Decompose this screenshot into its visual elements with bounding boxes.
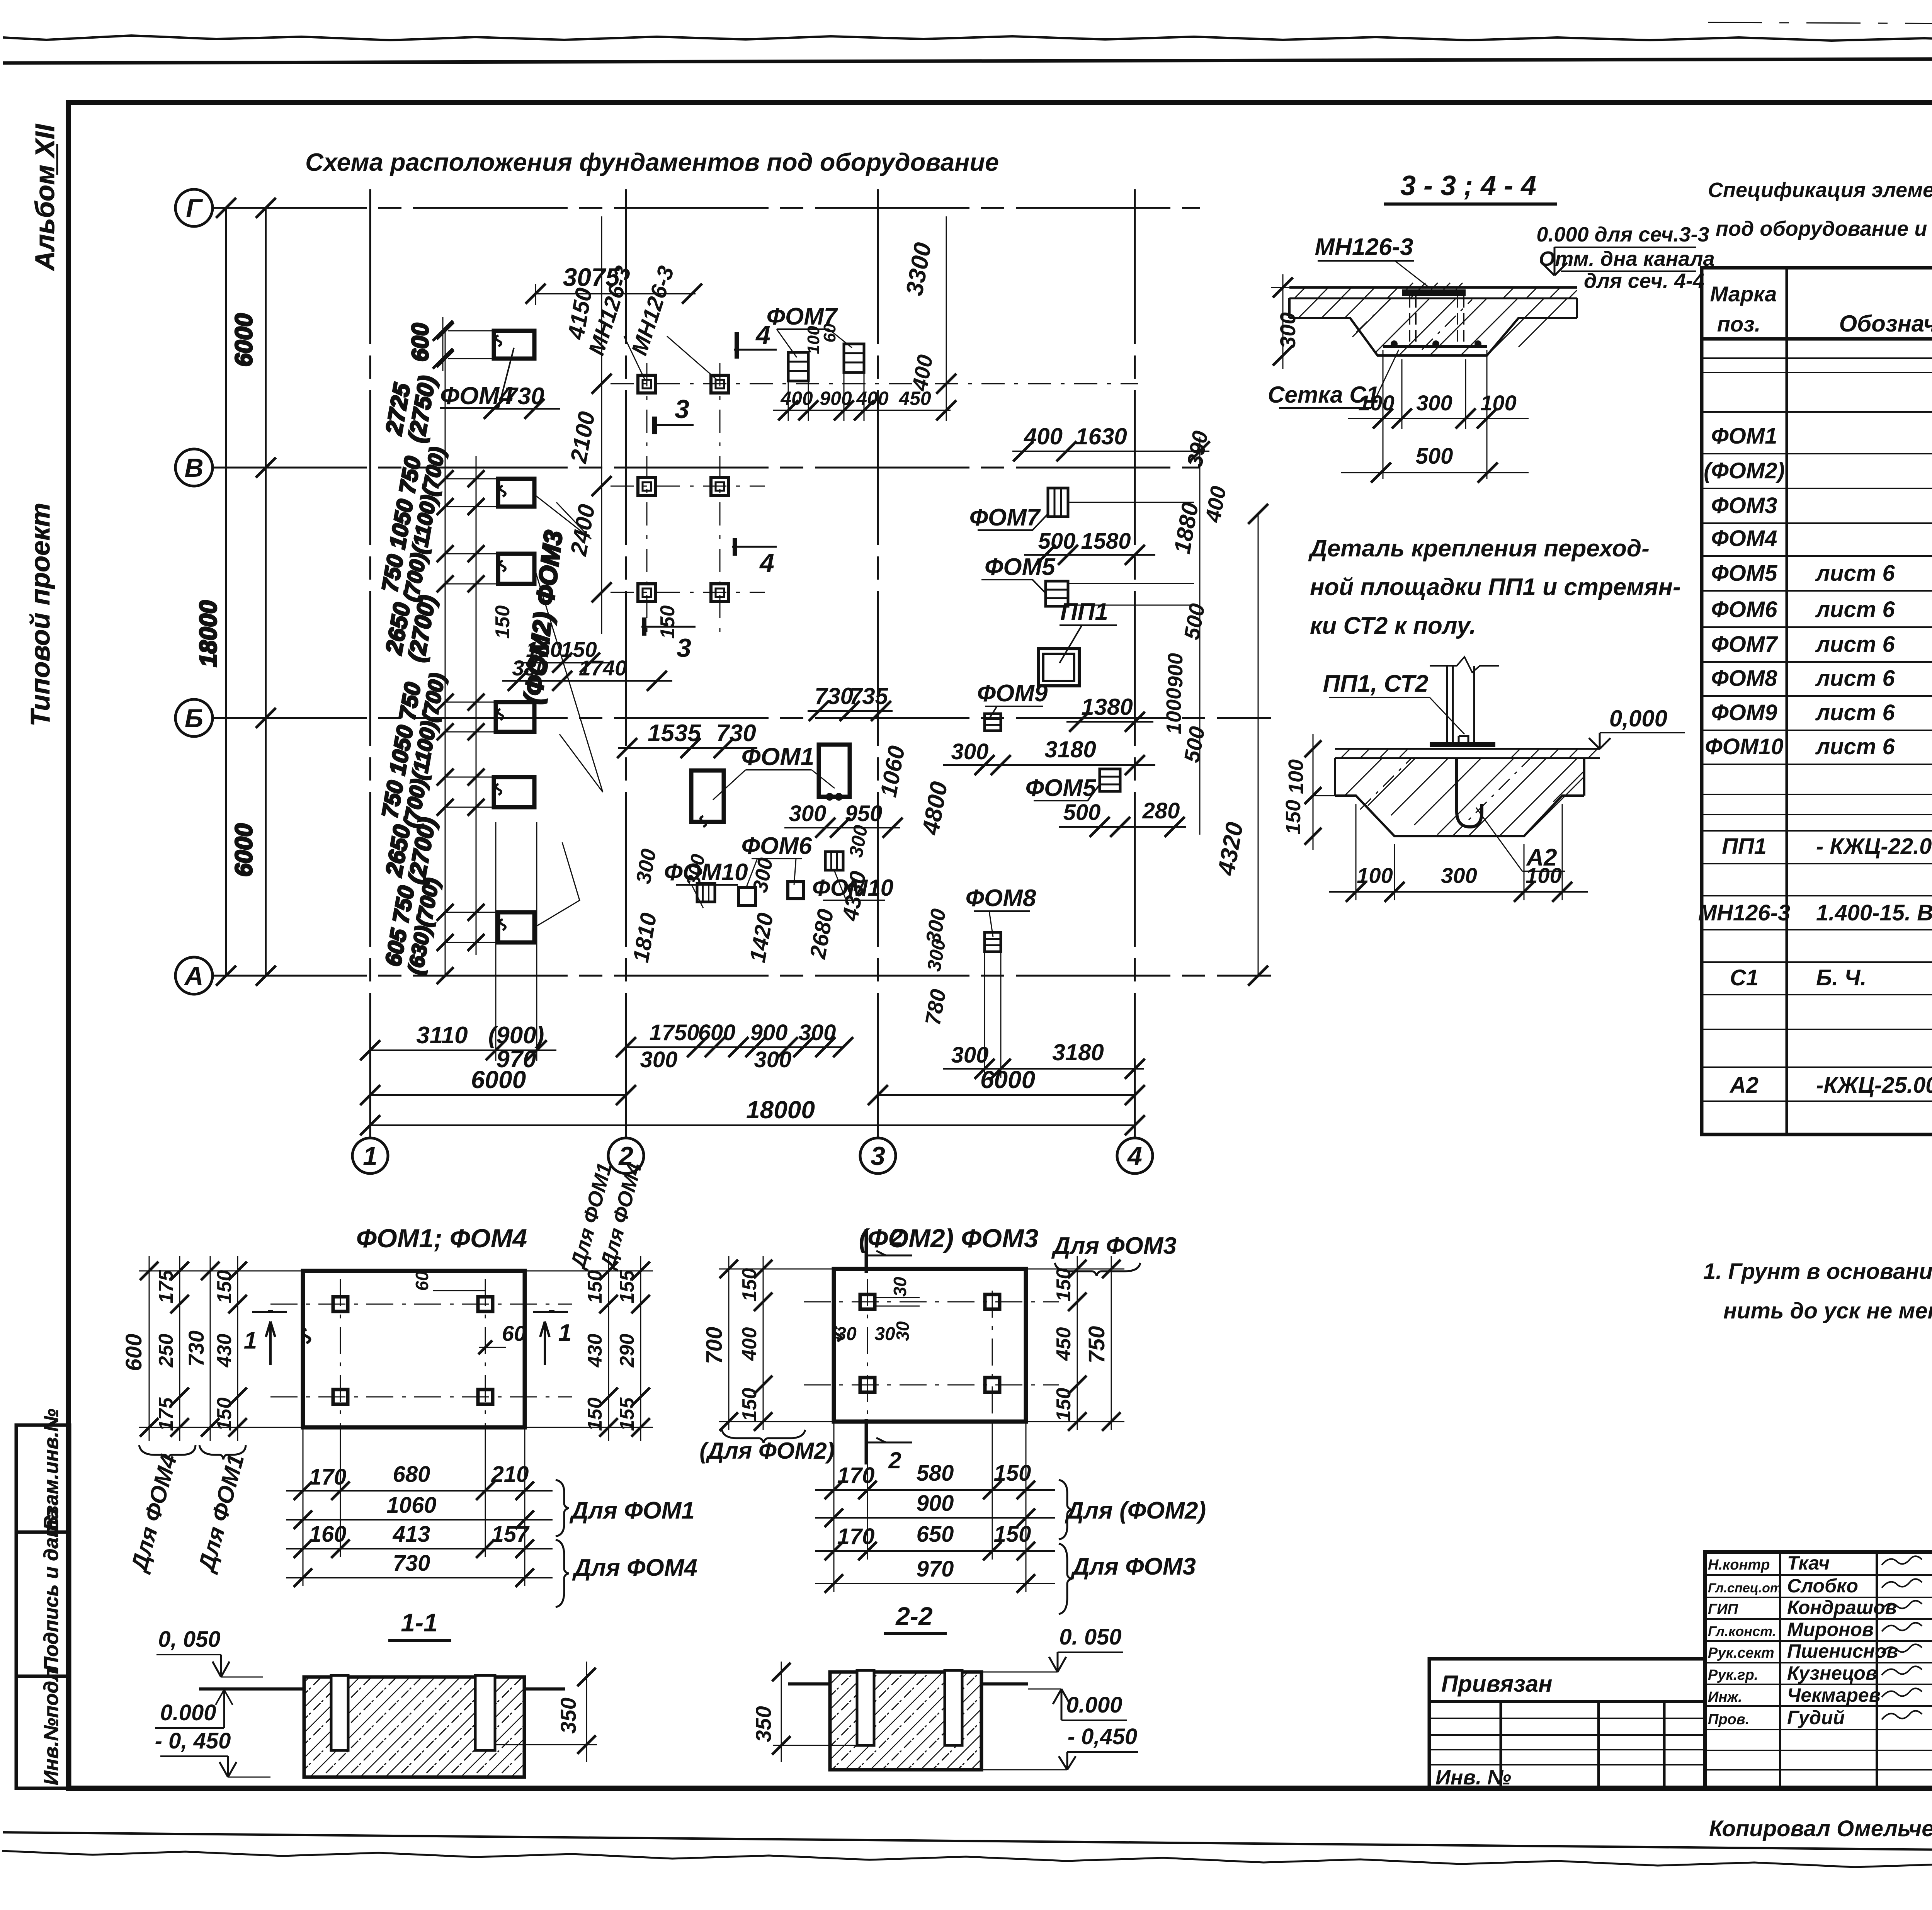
svg-text:Отм. дна канала: Отм. дна канала	[1539, 247, 1714, 270]
foundation FOM1 left	[691, 770, 724, 822]
svg-text:лист 6: лист 6	[1815, 632, 1895, 657]
svg-text:1535: 1535	[648, 720, 701, 747]
svg-text:Альбом ХІІ: Альбом ХІІ	[30, 124, 60, 271]
svg-text:1.400-15. Вып.1: 1.400-15. Вып.1	[1816, 900, 1932, 925]
svg-text:300: 300	[754, 1047, 792, 1072]
svg-text:150: 150	[213, 1398, 236, 1431]
svg-text:30: 30	[893, 1321, 913, 1341]
right dim chains	[608, 1256, 609, 1441]
svg-text:3: 3	[871, 1141, 885, 1171]
torn paper top wavy edge	[3, 36, 1932, 54]
svg-text:ФОМ5: ФОМ5	[1711, 561, 1778, 586]
svg-text:150: 150	[492, 605, 514, 639]
svg-text:900: 900	[1164, 653, 1187, 688]
svg-text:под оборудование и переходны: под оборудование и переходных площадок.	[1716, 217, 1932, 240]
svg-text:- КЖЦ-22.00: - КЖЦ-22.00	[1816, 834, 1932, 859]
svg-text:600: 600	[407, 323, 433, 362]
FOM7 striped rect a	[788, 352, 808, 381]
slab with channel	[1335, 758, 1584, 836]
section mark 2 top	[865, 1229, 868, 1273]
svg-text:лист 6: лист 6	[1815, 561, 1895, 586]
svg-text:300: 300	[951, 739, 989, 764]
svg-text:730: 730	[815, 683, 853, 709]
svg-text:Для ФОМ3: Для ФОМ3	[1070, 1553, 1196, 1580]
slab hatch	[1345, 758, 1584, 836]
svg-text:Г: Г	[186, 194, 203, 223]
svg-text:Схема расположения фундамент: Схема расположения фундаментов под обору…	[305, 148, 999, 176]
svg-text:970: 970	[917, 1556, 954, 1582]
svg-text:Рук.сект: Рук.сект	[1708, 1645, 1774, 1661]
svg-text:(900): (900)	[488, 1022, 544, 1049]
svg-text:А2: А2	[1729, 1073, 1759, 1098]
svg-text:100: 100	[1480, 391, 1516, 415]
svg-text:300: 300	[951, 1043, 989, 1068]
svg-text:18000: 18000	[746, 1096, 815, 1124]
row lines	[1702, 357, 1932, 359]
FOM7 mid striped rect	[1048, 488, 1068, 517]
svg-text:ФОМ1: ФОМ1	[742, 743, 815, 770]
svg-text:680: 680	[393, 1462, 430, 1487]
floor top line	[1335, 748, 1600, 750]
base plate	[1430, 742, 1495, 747]
svg-text:- 0, 450: - 0, 450	[155, 1728, 231, 1754]
svg-text:Инв.№подл: Инв.№подл	[40, 1668, 63, 1785]
svg-text:60: 60	[412, 1271, 432, 1291]
svg-text:Копировал Омельченко: Копировал Омельченко	[1709, 1816, 1932, 1841]
svg-text:1630: 1630	[1075, 423, 1127, 449]
FOM2/3 plan rect	[834, 1269, 1026, 1422]
svg-text:ГИП: ГИП	[1708, 1601, 1738, 1617]
post double lines	[1447, 666, 1453, 742]
svg-text:лист 6: лист 6	[1815, 666, 1895, 691]
svg-text:6000: 6000	[231, 823, 257, 877]
svg-text:МН126-3: МН126-3	[1698, 900, 1791, 925]
svg-text:170: 170	[837, 1524, 875, 1549]
svg-text:175: 175	[155, 1397, 177, 1431]
svg-text:Для ФОМ1: Для ФОМ1	[569, 1497, 695, 1524]
svg-text:ФОМ1: ФОМ1	[1711, 423, 1777, 449]
svg-text:430: 430	[584, 1334, 606, 1368]
svg-text:413: 413	[393, 1522, 430, 1547]
slab top line	[1289, 286, 1577, 289]
floor screed hatch	[1341, 749, 1597, 758]
svg-text:лист 6: лист 6	[1815, 700, 1895, 725]
thin screed hatch	[1294, 287, 1577, 298]
svg-text:Миронов: Миронов	[1787, 1619, 1874, 1640]
svg-text:500: 500	[1038, 529, 1076, 554]
embedded plate MN126-3	[1402, 289, 1466, 296]
left foundation dim chain lines	[445, 331, 446, 976]
svg-text:Б. Ч.: Б. Ч.	[1816, 965, 1866, 990]
svg-text:4: 4	[1127, 1141, 1142, 1171]
svg-text:30: 30	[836, 1324, 857, 1344]
section mark 3 bottom	[641, 626, 696, 628]
svg-text:150: 150	[1053, 1268, 1075, 1302]
privyazan table	[1429, 1659, 1705, 1788]
svg-text:2: 2	[888, 1447, 901, 1473]
svg-text:0.000: 0.000	[160, 1700, 216, 1725]
svg-text:Слобко: Слобко	[1787, 1575, 1858, 1597]
dim line 6000 left	[265, 208, 267, 976]
anchor vert axes	[646, 363, 648, 641]
svg-text:лист 6: лист 6	[1815, 734, 1895, 759]
anchor squares	[860, 1294, 875, 1309]
svg-text:лист 6: лист 6	[1815, 597, 1895, 622]
svg-text:1. Грунт в основании фунда: 1. Грунт в основании фундаментов под обо…	[1703, 1259, 1932, 1284]
svg-text:210: 210	[491, 1462, 529, 1487]
FOM10 left striped rect	[697, 883, 715, 902]
section arrow 1 right	[533, 1311, 568, 1313]
sheet top rule	[3, 58, 1932, 63]
svg-text:900: 900	[750, 1020, 788, 1045]
anchor legs dashed	[1410, 296, 1416, 344]
svg-text:Б: Б	[185, 704, 203, 733]
svg-text:250: 250	[155, 1334, 177, 1368]
svg-text:1060: 1060	[386, 1493, 436, 1518]
FOM6 square	[738, 888, 755, 905]
svg-text:1: 1	[363, 1141, 378, 1171]
svg-text:ФОМ5: ФОМ5	[985, 554, 1056, 580]
FOM5 lower striped rect	[1100, 769, 1120, 791]
svg-text:Кондрашов: Кондрашов	[1787, 1597, 1897, 1618]
svg-text:ной площадки ПП1 и стремян: ной площадки ПП1 и стремян-	[1310, 574, 1681, 600]
svg-text:3180: 3180	[1044, 736, 1096, 762]
grid row lines	[212, 207, 1200, 209]
svg-text:1380: 1380	[1081, 694, 1133, 720]
svg-text:430: 430	[213, 1334, 236, 1368]
svg-text:Н.контр: Н.контр	[1708, 1557, 1770, 1573]
svg-text:ФОМ7: ФОМ7	[969, 504, 1041, 531]
anchor axes	[804, 1301, 1059, 1303]
anchor line row1	[611, 383, 1138, 384]
spec table outer frame	[1702, 268, 1932, 1134]
svg-text:Спецификация элементов к схе: Спецификация элементов к схемам располож…	[1708, 179, 1932, 202]
svg-text:150: 150	[738, 1268, 761, 1302]
svg-text:ФОМ7: ФОМ7	[1711, 632, 1779, 657]
svg-text:поз.: поз.	[1717, 312, 1761, 336]
svg-text:150: 150	[584, 1398, 606, 1431]
dim line 18000 left	[225, 208, 227, 976]
svg-text:ки СТ2 к полу.: ки СТ2 к полу.	[1310, 612, 1476, 639]
svg-text:Для (ФОМ2): Для (ФОМ2)	[1065, 1497, 1206, 1524]
anchor line row3	[611, 592, 765, 593]
FOM8 striped rect	[985, 932, 1001, 952]
anchor line row2	[611, 486, 765, 487]
svg-text:Для ФОМ4: Для ФОМ4	[572, 1555, 697, 1581]
svg-text:60: 60	[820, 323, 839, 342]
FOM5 upper striped rect	[1046, 581, 1068, 606]
svg-text:Пров.: Пров.	[1708, 1711, 1749, 1728]
svg-text:1740: 1740	[579, 656, 627, 680]
svg-text:Инж.: Инж.	[1708, 1689, 1742, 1705]
svg-text:Пшениснов: Пшениснов	[1787, 1640, 1898, 1662]
anchor slots	[857, 1670, 874, 1745]
svg-text:150: 150	[656, 605, 679, 639]
svg-text:150: 150	[738, 1388, 761, 1422]
svg-text:Чекмарев: Чекмарев	[1787, 1684, 1881, 1706]
svg-text:Гл.спец.от: Гл.спец.от	[1708, 1581, 1782, 1595]
svg-text:60: 60	[502, 1321, 526, 1345]
svg-text:Рук.гр.: Рук.гр.	[1708, 1667, 1758, 1683]
section mark 2 bottom	[865, 1419, 868, 1464]
svg-text:350: 350	[556, 1697, 580, 1733]
svg-text:6000: 6000	[471, 1066, 526, 1094]
floor lines	[788, 1682, 830, 1685]
FOM7 striped rect b	[844, 344, 864, 372]
svg-text:150: 150	[1053, 1388, 1075, 1422]
header row line	[1702, 337, 1932, 341]
svg-text:650: 650	[917, 1522, 954, 1547]
grid column circles	[352, 1138, 388, 1174]
svg-text:750: 750	[1084, 1326, 1109, 1364]
svg-text:С1: С1	[1730, 965, 1759, 990]
svg-text:Кузнецов: Кузнецов	[1787, 1662, 1877, 1684]
section mark 4 bottom	[732, 546, 777, 548]
mesh C1 bar	[1383, 345, 1487, 348]
svg-text:Для ФОМ3: Для ФОМ3	[1051, 1233, 1177, 1259]
svg-text:ФОМ3: ФОМ3	[1711, 493, 1777, 518]
svg-text:нить до уск не менее 1.6: нить до уск не менее 1.6 т /м³.	[1723, 1298, 1932, 1323]
svg-text:300: 300	[640, 1047, 678, 1072]
torn paper bottom wavy edge	[2, 1851, 1932, 1873]
svg-text:450: 450	[1053, 1327, 1075, 1361]
sheet bottom rule	[3, 1832, 1932, 1855]
svg-text:ФОМ8: ФОМ8	[1711, 666, 1778, 691]
anchor A2 hook	[1457, 758, 1482, 827]
svg-text:(Для ФОМ2): (Для ФОМ2)	[699, 1438, 834, 1464]
svg-text:175: 175	[155, 1270, 177, 1304]
svg-text:0. 050: 0. 050	[1059, 1624, 1121, 1650]
svg-text:900: 900	[917, 1491, 954, 1516]
svg-text:730: 730	[393, 1551, 430, 1576]
right braces with labels	[556, 1480, 569, 1536]
svg-text:ПП1: ПП1	[1722, 834, 1767, 859]
left stamp boxes	[16, 1425, 70, 1532]
svg-text:0,000: 0,000	[1609, 706, 1667, 731]
svg-text:- 0,450: - 0,450	[1068, 1724, 1138, 1749]
svg-text:1580: 1580	[1081, 529, 1131, 554]
svg-text:А: А	[184, 961, 203, 991]
section mark 3 top	[652, 424, 694, 426]
svg-text:ФОМ9: ФОМ9	[1711, 700, 1777, 725]
svg-text:4: 4	[759, 548, 774, 578]
svg-text:3180: 3180	[1052, 1039, 1104, 1065]
svg-text:6000: 6000	[231, 313, 257, 367]
svg-text:Обозначение: Обозначение	[1839, 311, 1932, 337]
svg-text:1000: 1000	[1162, 688, 1185, 734]
column lines	[1786, 268, 1788, 1134]
svg-text:Деталь крепления переход-: Деталь крепления переход-	[1308, 535, 1650, 562]
svg-text:ФОМ5: ФОМ5	[1026, 775, 1097, 801]
left curly braces	[139, 1445, 196, 1459]
grid row circles	[175, 189, 213, 226]
svg-text:В: В	[184, 453, 203, 483]
svg-text:400: 400	[738, 1327, 761, 1361]
foundation FOM1 right	[819, 745, 850, 797]
svg-text:580: 580	[917, 1461, 954, 1486]
svg-text:Подпись и дата: Подпись и дата	[40, 1508, 63, 1671]
anchor axes	[270, 1304, 572, 1305]
svg-text:150: 150	[1282, 800, 1305, 835]
svg-text:Привязан: Привязан	[1441, 1671, 1552, 1697]
svg-text:Инв. №: Инв. №	[1435, 1766, 1511, 1789]
svg-text:350: 350	[751, 1706, 776, 1742]
svg-text:1: 1	[558, 1320, 571, 1346]
svg-text:МН126-3: МН126-3	[1315, 234, 1413, 260]
album label rotated	[56, 144, 58, 175]
title block signature table	[1705, 1552, 1932, 1788]
grid column lines	[369, 189, 371, 1138]
svg-text:950: 950	[845, 801, 883, 826]
section mark 4 top	[734, 349, 777, 351]
svg-text:30: 30	[874, 1324, 895, 1344]
svg-text:Марка: Марка	[1710, 282, 1777, 306]
svg-text:300: 300	[1276, 312, 1300, 348]
FOM1/4 plan rect	[303, 1271, 525, 1427]
svg-text:ФОМ6: ФОМ6	[1711, 597, 1778, 622]
left dim chains	[728, 1256, 730, 1430]
svg-text:155: 155	[616, 1270, 638, 1304]
anchor slots	[331, 1675, 348, 1750]
svg-text:700: 700	[702, 1327, 727, 1364]
svg-text:1750: 1750	[649, 1020, 699, 1045]
svg-text:Гл.конст.: Гл.конст.	[1708, 1623, 1776, 1639]
svg-text:730: 730	[184, 1330, 208, 1366]
left column foundation rects	[498, 479, 534, 507]
svg-text:ФОМ9: ФОМ9	[977, 680, 1048, 707]
svg-text:ФОМ1; ФОМ4: ФОМ1; ФОМ4	[356, 1224, 527, 1253]
left dim chains	[149, 1256, 150, 1441]
right dim chains	[1077, 1256, 1078, 1430]
svg-text:400: 400	[856, 388, 889, 409]
slab body outline with channel	[1289, 298, 1577, 355]
slab hatching	[1298, 298, 1567, 355]
svg-text:ФОМ10: ФОМ10	[1705, 734, 1783, 759]
svg-text:2-2: 2-2	[895, 1602, 933, 1630]
svg-text:3110: 3110	[416, 1022, 468, 1049]
svg-text:(ФОМ2) ФОМ3: (ФОМ2) ФОМ3	[859, 1224, 1038, 1253]
small square right	[788, 882, 803, 899]
svg-text:300: 300	[789, 801, 827, 826]
svg-text:290: 290	[616, 1334, 638, 1368]
svg-text:0, 050: 0, 050	[158, 1627, 220, 1652]
svg-text:100: 100	[1284, 759, 1308, 794]
svg-text:Гудий: Гудий	[1787, 1707, 1845, 1728]
elevation mark arrow	[1542, 247, 1567, 276]
svg-text:3: 3	[675, 395, 689, 424]
1-1 body hatched	[304, 1677, 524, 1777]
svg-text:2: 2	[889, 1224, 903, 1250]
MN126-3 anchor squares	[638, 375, 656, 393]
svg-text:300: 300	[1416, 391, 1452, 415]
svg-text:170: 170	[837, 1463, 875, 1488]
svg-text:0.000: 0.000	[1066, 1692, 1122, 1718]
svg-text:500: 500	[1416, 444, 1453, 469]
post break line	[1430, 657, 1499, 672]
svg-text:150: 150	[213, 1270, 236, 1304]
svg-text:для сеч. 4-4: для сеч. 4-4	[1584, 269, 1704, 293]
svg-text:Типовой проект: Типовой проект	[25, 503, 55, 726]
svg-text:280: 280	[1142, 798, 1180, 823]
svg-text:380: 380	[512, 656, 548, 680]
svg-text:1: 1	[244, 1327, 257, 1354]
torn paper top dash-dot edge	[1708, 22, 1932, 24]
svg-text:3 - 3 ; 4 - 4: 3 - 3 ; 4 - 4	[1400, 170, 1536, 201]
2-2 body hatched	[830, 1672, 981, 1770]
anchor squares	[333, 1297, 348, 1311]
svg-text:ПП1, СТ2: ПП1, СТ2	[1323, 670, 1429, 697]
PP1 square	[1038, 649, 1079, 686]
svg-text:Ткач: Ткач	[1787, 1552, 1830, 1574]
svg-text:500: 500	[1063, 800, 1101, 825]
svg-text:18000: 18000	[195, 600, 222, 667]
svg-text:30: 30	[890, 1277, 910, 1297]
svg-text:(ФОМ2): (ФОМ2)	[1704, 458, 1785, 483]
svg-text:155: 155	[616, 1397, 638, 1431]
svg-text:157: 157	[492, 1522, 530, 1547]
svg-text:ФОМ4: ФОМ4	[1711, 526, 1777, 551]
svg-text:0.000 для сеч.3-3: 0.000 для сеч.3-3	[1536, 223, 1709, 246]
label (Dlya FOM2)	[722, 1430, 805, 1443]
FOM10 right striped rect	[825, 852, 843, 870]
svg-text:ФОМ8: ФОМ8	[966, 885, 1036, 912]
floor lines	[199, 1687, 304, 1691]
svg-text:300: 300	[1441, 863, 1477, 888]
right braces with labels	[1059, 1480, 1072, 1539]
foundation FOM4 top	[494, 331, 534, 359]
FOM9 striped rect	[985, 714, 1001, 731]
section arrow 1 left	[252, 1311, 287, 1313]
svg-text:ФОМ6: ФОМ6	[742, 833, 812, 859]
svg-text:600: 600	[121, 1334, 146, 1371]
svg-text:1-1: 1-1	[401, 1608, 437, 1637]
leaders FOM3	[534, 495, 591, 539]
svg-text:6000: 6000	[980, 1066, 1035, 1094]
svg-text:-КЖЦ-25.00: -КЖЦ-25.00	[1816, 1073, 1932, 1098]
svg-text:ПП1: ПП1	[1060, 599, 1108, 625]
svg-text:150: 150	[584, 1270, 606, 1304]
